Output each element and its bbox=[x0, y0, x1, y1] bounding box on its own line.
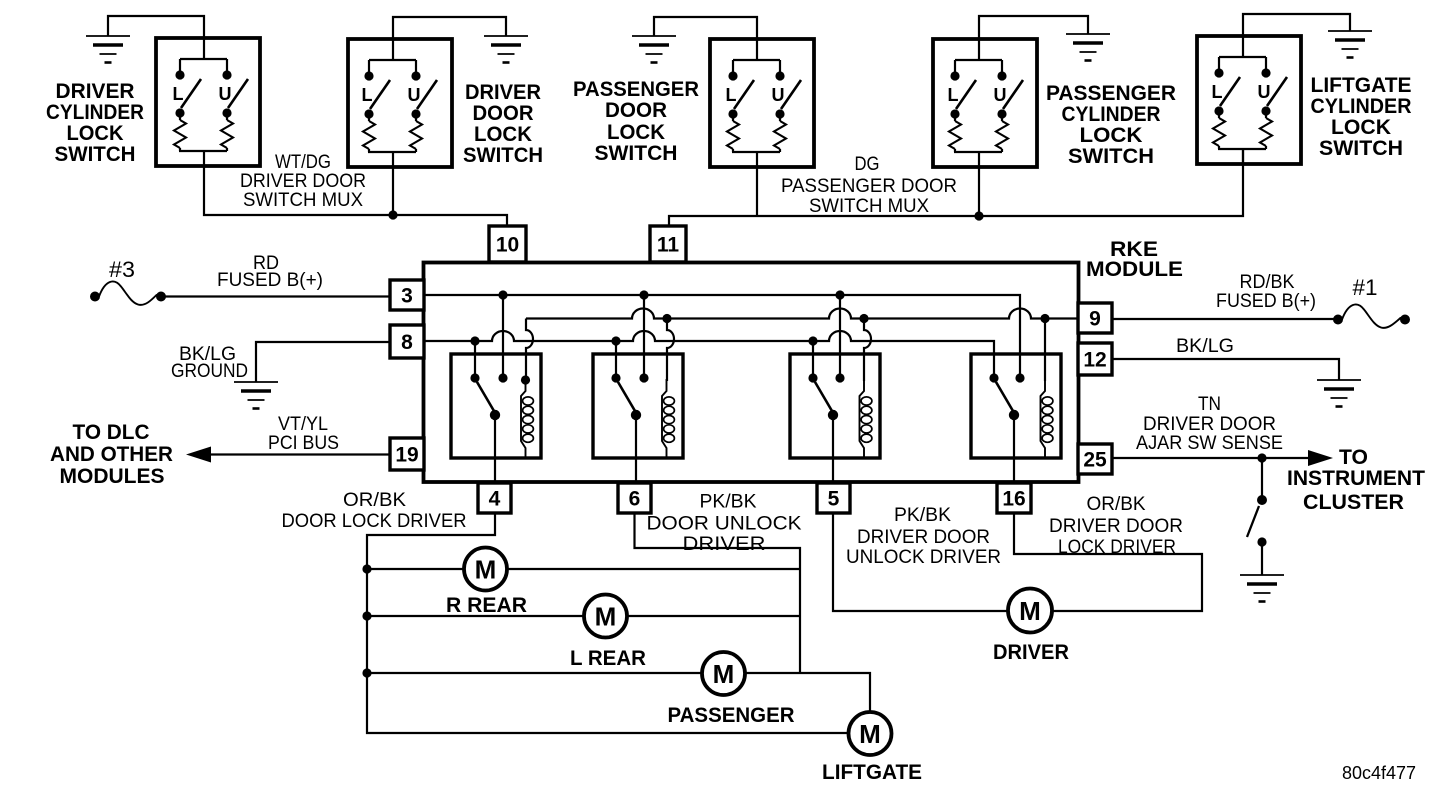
svg-text:M: M bbox=[475, 554, 497, 584]
wire passenger cylinder switch drop bbox=[978, 167, 980, 216]
label DG passenger door switch mux bbox=[781, 154, 957, 217]
svg-text:PASSENGER DOOR: PASSENGER DOOR bbox=[781, 176, 957, 197]
svg-text:3: 3 bbox=[401, 285, 413, 308]
wire pin 6 door unlock driver bbox=[635, 513, 801, 673]
svg-text:U: U bbox=[772, 85, 785, 105]
junction passenger cylinder mux bbox=[974, 211, 983, 220]
svg-text:10: 10 bbox=[496, 234, 519, 257]
svg-text:PK/BK: PK/BK bbox=[700, 492, 757, 513]
relay K1 door lock bbox=[451, 354, 541, 483]
wire door ajar sense bbox=[1112, 457, 1309, 459]
svg-text:OR/BK: OR/BK bbox=[343, 490, 406, 511]
junction door ajar bbox=[1257, 453, 1266, 462]
motor M1 R rear bbox=[464, 548, 507, 591]
wire coil feed relay 4 bbox=[1044, 319, 1046, 382]
switch passenger door lock bbox=[710, 39, 814, 167]
wire passenger door switch to ground bbox=[654, 17, 757, 39]
svg-text:DRIVER: DRIVER bbox=[993, 641, 1069, 664]
wire passenger door switch drop bbox=[756, 167, 758, 216]
wire B+ to relay 3 common bbox=[839, 295, 841, 378]
label PK/BK door unlock driver bbox=[647, 492, 802, 556]
svg-text:SWITCH: SWITCH bbox=[463, 144, 543, 167]
svg-text:WT/DG: WT/DG bbox=[275, 152, 331, 173]
svg-text:SWITCH: SWITCH bbox=[55, 143, 136, 166]
label to DLC and other modules bbox=[50, 421, 173, 488]
ground right bbox=[1317, 380, 1361, 407]
wire ground to relay 1 contact bbox=[474, 341, 476, 378]
svg-text:DOOR: DOOR bbox=[473, 102, 534, 125]
ground driver door switch bbox=[484, 36, 528, 63]
svg-text:DRIVER: DRIVER bbox=[56, 80, 135, 103]
wire pin 8 to ground bbox=[256, 342, 390, 382]
wire coil feed relay 1 bbox=[526, 319, 533, 382]
svg-text:SWITCH: SWITCH bbox=[1068, 145, 1154, 168]
wire pin 16 driver door lock bbox=[1014, 513, 1202, 611]
svg-text:PCI BUS: PCI BUS bbox=[268, 433, 339, 454]
svg-text:LIFTGATE: LIFTGATE bbox=[822, 761, 922, 784]
wire pin 9 to fuse 1 bbox=[1112, 318, 1338, 320]
wire liftgate cylinder switch to ground bbox=[1243, 14, 1350, 36]
svg-text:DRIVER DOOR: DRIVER DOOR bbox=[240, 171, 366, 192]
svg-text:MODULE: MODULE bbox=[1086, 258, 1183, 281]
svg-text:AND OTHER: AND OTHER bbox=[50, 443, 173, 466]
wire pin 5 driver door unlock bbox=[833, 513, 1008, 611]
junction B+ relay 1 bbox=[498, 290, 507, 299]
svg-text:LIFTGATE: LIFTGATE bbox=[1311, 74, 1412, 97]
wire PCI bus bbox=[208, 453, 390, 455]
arrow to instrument cluster bbox=[1308, 450, 1333, 466]
svg-text:M: M bbox=[595, 601, 617, 631]
label driver cylinder lock switch bbox=[46, 80, 144, 166]
label passenger motor bbox=[668, 704, 795, 727]
label to instrument cluster bbox=[1287, 446, 1425, 514]
svg-text:DG: DG bbox=[855, 154, 880, 175]
wire driver door switch to ground bbox=[393, 17, 506, 39]
label BK/LG right bbox=[1176, 336, 1234, 357]
svg-text:DRIVER: DRIVER bbox=[465, 81, 541, 104]
wire coil feed relay 3 bbox=[864, 319, 871, 382]
label RD/BK fused B+ bbox=[1216, 272, 1316, 312]
svg-text:M: M bbox=[1019, 596, 1041, 626]
relay K2 door unlock bbox=[593, 354, 683, 483]
wire driver cylinder switch to ground bbox=[108, 16, 204, 38]
svg-text:GROUND: GROUND bbox=[171, 361, 248, 382]
svg-text:L REAR: L REAR bbox=[570, 647, 646, 670]
svg-text:SWITCH MUX: SWITCH MUX bbox=[243, 190, 363, 211]
junction coil supply relay 2 bbox=[662, 314, 671, 323]
svg-text:80c4f477: 80c4f477 bbox=[1342, 763, 1416, 783]
svg-text:CYLINDER: CYLINDER bbox=[46, 101, 144, 124]
svg-text:MODULES: MODULES bbox=[60, 465, 165, 488]
svg-text:SWITCH MUX: SWITCH MUX bbox=[809, 196, 929, 217]
svg-text:SWITCH: SWITCH bbox=[595, 142, 678, 165]
motor M3 passenger bbox=[702, 652, 745, 695]
junction B+ relay 3 bbox=[835, 290, 844, 299]
svg-text:TN: TN bbox=[1198, 394, 1221, 415]
svg-text:PASSENGER: PASSENGER bbox=[668, 704, 795, 727]
junction lock bus passenger bbox=[362, 668, 371, 677]
svg-text:9: 9 bbox=[1089, 308, 1101, 331]
svg-text:19: 19 bbox=[395, 444, 418, 467]
svg-text:INSTRUMENT: INSTRUMENT bbox=[1287, 467, 1425, 490]
svg-text:16: 16 bbox=[1002, 488, 1025, 511]
svg-text:CYLINDER: CYLINDER bbox=[1062, 103, 1161, 126]
svg-text:BK/LG: BK/LG bbox=[1176, 336, 1234, 357]
pin 4 bbox=[478, 483, 511, 513]
svg-text:DOOR LOCK DRIVER: DOOR LOCK DRIVER bbox=[282, 511, 467, 532]
svg-text:6: 6 bbox=[629, 488, 641, 511]
svg-text:LOCK DRIVER: LOCK DRIVER bbox=[1058, 537, 1176, 558]
svg-text:UNLOCK DRIVER: UNLOCK DRIVER bbox=[846, 547, 1001, 568]
pin 5 bbox=[817, 483, 850, 513]
svg-text:DRIVER DOOR: DRIVER DOOR bbox=[1049, 516, 1183, 537]
wire R rear motor right bbox=[507, 568, 800, 570]
junction lock bus L rear bbox=[362, 611, 371, 620]
wire passenger cylinder switch to ground bbox=[979, 16, 1088, 39]
svg-text:PASSENGER: PASSENGER bbox=[1046, 82, 1176, 105]
junction coil supply relay 4 bbox=[1040, 314, 1049, 323]
svg-text:FUSED B(+): FUSED B(+) bbox=[217, 270, 323, 291]
svg-text:M: M bbox=[859, 719, 881, 749]
svg-text:L: L bbox=[948, 85, 959, 105]
switch driver door ajar bbox=[1247, 495, 1267, 575]
wire pin 12 to ground bbox=[1112, 359, 1339, 380]
label liftgate motor bbox=[822, 761, 922, 784]
arrow to DLC bbox=[186, 447, 211, 463]
wire passenger motor left bbox=[367, 672, 702, 674]
svg-text:PASSENGER: PASSENGER bbox=[573, 78, 699, 101]
junction ground relay 1 bbox=[470, 336, 479, 345]
switch passenger cylinder lock bbox=[933, 39, 1037, 167]
label R rear bbox=[446, 594, 527, 617]
svg-text:L: L bbox=[1212, 82, 1223, 102]
svg-text:DRIVER DOOR: DRIVER DOOR bbox=[1143, 414, 1276, 435]
wire internal ground bus bbox=[425, 331, 994, 378]
motor M2 L rear bbox=[584, 595, 627, 638]
junction driver door mux bbox=[388, 210, 397, 219]
label passenger door lock switch bbox=[573, 78, 699, 165]
pin 12 bbox=[1078, 343, 1112, 375]
wire internal B+ bus bbox=[425, 295, 1020, 378]
switch liftgate cylinder lock bbox=[1197, 36, 1301, 164]
svg-text:LOCK: LOCK bbox=[1331, 116, 1391, 139]
label passenger cylinder lock switch bbox=[1046, 82, 1176, 168]
ground passenger cylinder switch bbox=[1066, 34, 1110, 61]
ground G200 left bbox=[234, 382, 278, 409]
motor M4 driver bbox=[1008, 589, 1052, 633]
wire R rear motor left bbox=[367, 568, 464, 570]
wire B+ to relay 2 common bbox=[643, 295, 645, 378]
svg-text:L: L bbox=[726, 85, 737, 105]
pin 10 bbox=[489, 226, 526, 262]
svg-text:AJAR SW SENSE: AJAR SW SENSE bbox=[1136, 433, 1283, 454]
svg-text:LOCK: LOCK bbox=[474, 123, 532, 146]
svg-text:VT/YL: VT/YL bbox=[278, 414, 328, 435]
label OR/BK driver door lock driver bbox=[1049, 494, 1183, 558]
label WT/DG driver door switch mux bbox=[240, 152, 366, 211]
svg-text:12: 12 bbox=[1083, 349, 1106, 372]
wire internal coil supply bus bbox=[526, 309, 1078, 319]
svg-text:U: U bbox=[219, 84, 232, 104]
label liftgate cylinder lock switch bbox=[1311, 74, 1412, 160]
junction coil supply relay 3 bbox=[859, 314, 868, 323]
junction ground relay 3 bbox=[808, 336, 817, 345]
svg-text:4: 4 bbox=[489, 488, 501, 511]
label driver motor bbox=[993, 641, 1069, 664]
ground door ajar switch bbox=[1240, 575, 1284, 602]
svg-text:11: 11 bbox=[657, 234, 680, 257]
wire coil feed relay 2 bbox=[667, 319, 674, 382]
svg-text:8: 8 bbox=[401, 331, 413, 354]
wire passenger motor right bbox=[745, 673, 870, 712]
fuse #3 bbox=[90, 257, 166, 305]
wire B+ to relay 1 common bbox=[502, 295, 504, 378]
wire driver door switch drop bbox=[392, 167, 394, 215]
svg-text:DOOR UNLOCK: DOOR UNLOCK bbox=[647, 514, 802, 535]
svg-text:M: M bbox=[713, 659, 735, 689]
svg-text:CLUSTER: CLUSTER bbox=[1303, 491, 1404, 514]
wire to door ajar switch bbox=[1261, 458, 1263, 500]
label VT/YL PCI bus bbox=[268, 414, 339, 454]
svg-text:CYLINDER: CYLINDER bbox=[1311, 95, 1412, 118]
ground driver cylinder switch bbox=[86, 36, 130, 63]
relay K4 driver door lock bbox=[971, 354, 1061, 483]
ground liftgate cylinder switch bbox=[1328, 31, 1372, 58]
pin 11 bbox=[650, 226, 686, 262]
svg-text:LOCK: LOCK bbox=[67, 122, 124, 145]
wire ground to relay 3 contact bbox=[812, 341, 814, 378]
svg-text:U: U bbox=[1258, 82, 1271, 102]
pin 8 bbox=[390, 325, 424, 358]
label OR/BK door lock driver bbox=[282, 490, 467, 532]
svg-text:FUSED B(+): FUSED B(+) bbox=[1216, 291, 1316, 312]
svg-text:DRIVER: DRIVER bbox=[683, 534, 766, 555]
svg-text:DOOR: DOOR bbox=[605, 99, 667, 122]
svg-text:TO: TO bbox=[1339, 446, 1368, 469]
svg-text:L: L bbox=[362, 85, 373, 105]
relay K3 driver door unlock bbox=[790, 354, 880, 483]
wire driver door switch mux bbox=[204, 166, 507, 226]
svg-text:U: U bbox=[994, 85, 1007, 105]
pin 16 bbox=[997, 483, 1031, 513]
pin 9 bbox=[1078, 303, 1112, 333]
label driver door lock switch bbox=[463, 81, 543, 167]
svg-text:DRIVER DOOR: DRIVER DOOR bbox=[857, 527, 990, 548]
svg-text:PK/BK: PK/BK bbox=[894, 505, 951, 526]
wire passenger door switch mux bbox=[669, 149, 1243, 226]
fuse #1 bbox=[1333, 275, 1410, 328]
svg-text:RD/BK: RD/BK bbox=[1240, 272, 1295, 293]
switch driver cylinder lock bbox=[156, 38, 260, 166]
label PK/BK driver door unlock driver bbox=[846, 505, 1001, 568]
label BK/LG ground bbox=[171, 344, 248, 382]
svg-text:LOCK: LOCK bbox=[1080, 124, 1143, 147]
wire pin 4 door lock driver bbox=[367, 513, 848, 733]
ground passenger door switch bbox=[632, 36, 676, 63]
wire L rear motor right bbox=[627, 615, 800, 617]
wire ground to relay 2 contact bbox=[615, 341, 617, 378]
svg-text:R REAR: R REAR bbox=[446, 594, 527, 617]
label L rear bbox=[570, 647, 646, 670]
junction B+ relay 2 bbox=[639, 290, 648, 299]
svg-text:SWITCH: SWITCH bbox=[1319, 137, 1403, 160]
wire fused B+ to pin 3 bbox=[161, 295, 390, 297]
svg-text:OR/BK: OR/BK bbox=[1087, 494, 1146, 515]
label diagram id 80c4f477 bbox=[1342, 763, 1416, 783]
svg-text:25: 25 bbox=[1083, 449, 1107, 472]
label RD fused B+ bbox=[217, 253, 323, 291]
switch driver door lock bbox=[348, 39, 452, 167]
label TN driver door ajar sw sense bbox=[1136, 394, 1283, 454]
svg-text:U: U bbox=[408, 85, 421, 105]
svg-text:#3: #3 bbox=[109, 257, 135, 282]
svg-text:5: 5 bbox=[828, 488, 840, 511]
pin 3 bbox=[390, 280, 424, 310]
svg-text:TO DLC: TO DLC bbox=[73, 421, 150, 444]
motor M5 liftgate bbox=[849, 712, 892, 755]
junction ground relay 2 bbox=[611, 336, 620, 345]
junction coil top relay 1 bbox=[521, 375, 530, 384]
svg-text:L: L bbox=[173, 84, 184, 104]
pin 25 bbox=[1078, 444, 1112, 474]
svg-text:LOCK: LOCK bbox=[607, 121, 665, 144]
wire L rear motor left bbox=[367, 615, 584, 617]
label RKE module bbox=[1086, 238, 1183, 281]
svg-text:#1: #1 bbox=[1353, 275, 1378, 300]
pin 19 bbox=[390, 438, 424, 470]
pin 6 bbox=[618, 483, 651, 513]
junction lock bus R rear bbox=[362, 564, 371, 573]
RKE module box U1 bbox=[424, 263, 1079, 483]
